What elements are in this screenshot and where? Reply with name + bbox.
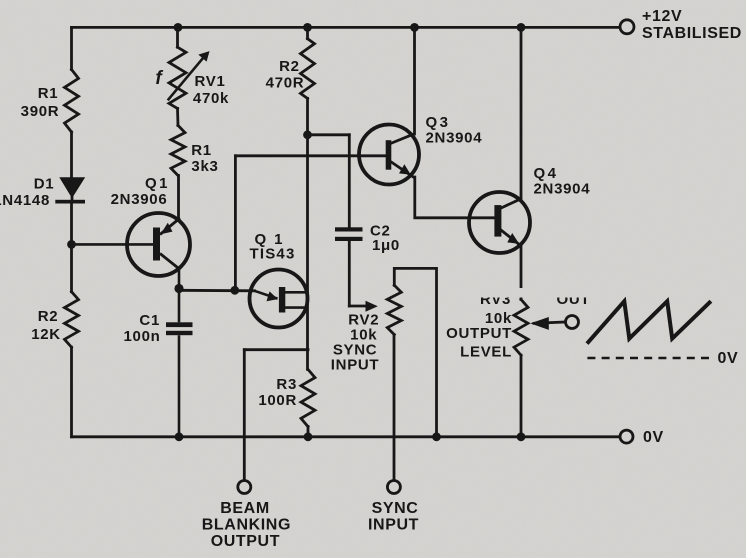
transistor TIS43 base1 lead bbox=[285, 306, 308, 309]
wire +12V top rail bbox=[72, 26, 621, 29]
transistor Q1 TIS43 circle bbox=[250, 270, 308, 328]
transistor TIS43 emitter lead diagonal bbox=[255, 291, 278, 299]
transistor Q3 emitter arrow (NPN) bbox=[399, 164, 411, 175]
transistor Q3 emitter lead bbox=[391, 162, 415, 178]
junction dot top rail Q4 collector bbox=[517, 23, 526, 32]
junction dot bottom rail C1 bbox=[175, 432, 184, 441]
transistor Q1 emitter arrow (PNP) bbox=[161, 223, 173, 234]
potentiometer RV3 wiper arrowhead bbox=[530, 317, 549, 330]
wire node to C2 horizontal bbox=[308, 133, 350, 136]
capacitor C2 top plate bbox=[335, 227, 363, 231]
wire R2 470R top lead bbox=[306, 27, 309, 38]
wire RV2 bottom to SYNC INPUT terminal bbox=[393, 335, 396, 481]
potentiometer RV3 10k zigzag bbox=[514, 299, 528, 355]
wire TIS43 emitter horizontal bbox=[179, 289, 255, 292]
transistor Q3 2N3904 circle bbox=[359, 125, 419, 185]
wire RV3 wiper arrow line from OUT bbox=[534, 322, 566, 323]
transistor Q1 2N3906 circle bbox=[127, 213, 190, 276]
transistor Q1 emitter lead bbox=[160, 218, 180, 235]
transistor Q4 emitter arrow (NPN) bbox=[507, 233, 519, 244]
capacitor C1 100n top plate bbox=[166, 322, 193, 327]
wire RV3 bottom lead bbox=[520, 355, 523, 437]
wire 0V bottom rail bbox=[72, 435, 621, 438]
transistor Q3 base bar bbox=[386, 140, 392, 170]
wire Q1 base lead bbox=[72, 243, 154, 246]
transistor Q4 collector lead bbox=[499, 199, 521, 209]
resistor R2 470R bbox=[301, 39, 315, 99]
wire Q4 emitter vertical to RV3 bbox=[520, 246, 523, 299]
waveform 0V dashed baseline bbox=[587, 357, 714, 359]
transistor TIS43 base2 lead bbox=[285, 291, 308, 294]
transistor TIS43 emitter arrow bbox=[267, 291, 278, 301]
potentiometer RV1 diagonal arrow bbox=[168, 56, 205, 101]
wire left rail top segment bbox=[70, 27, 73, 69]
terminal OUT bbox=[566, 316, 579, 329]
capacitor C1 100n bottom plate bbox=[166, 331, 193, 335]
wire RV1 top lead bbox=[176, 27, 179, 47]
wire Q3 emitter vertical and Q4 base wire bbox=[415, 177, 495, 218]
resistor R1 390R bbox=[65, 70, 79, 133]
sawtooth waveform bbox=[587, 301, 711, 343]
wire left rail between D1 and R2 bbox=[70, 203, 73, 292]
wire Q3 base from TIS43 emitter node bbox=[235, 154, 386, 157]
wire C2 bottom lead bbox=[348, 241, 351, 306]
terminal +12V bbox=[620, 20, 634, 34]
resistor R3 100R bbox=[301, 369, 315, 426]
wire BEAM blanking tap horizontal bbox=[244, 348, 308, 351]
wire C1 bottom lead bbox=[178, 335, 181, 437]
potentiometer RV2 wiper arrowhead bbox=[366, 301, 378, 312]
junction dot left rail Q1 base bbox=[67, 240, 76, 249]
diode D1 cathode bar bbox=[55, 200, 85, 204]
wire RV2 wiper arrow line bbox=[349, 305, 369, 308]
junction dot top rail R2 470R bbox=[303, 23, 312, 32]
potentiometer RV2 10k zigzag bbox=[387, 285, 401, 334]
resistor R1 3k3 bbox=[171, 125, 185, 175]
wire left rail between R1 and D1 bbox=[70, 132, 73, 179]
wire between RV1 and R1 3k3 bbox=[176, 109, 179, 126]
wire C2 top lead bbox=[348, 135, 351, 228]
junction dot R2 bottom node bbox=[303, 130, 312, 139]
wire RV2 top lead loop bbox=[394, 268, 436, 436]
wire R1 3k3 to Q1 emitter bbox=[177, 176, 180, 219]
junction dot top rail Q3 collector bbox=[410, 23, 419, 32]
wire vertical node to Q3 base wire bbox=[234, 156, 237, 290]
transistor Q1 collector lead bbox=[160, 254, 180, 270]
junction dot bottom rail R3 bbox=[304, 432, 313, 441]
transistor Q3 collector lead bbox=[391, 134, 415, 144]
junction dot top rail RV1 bbox=[174, 23, 183, 32]
wire R3 bottom lead bbox=[307, 427, 310, 437]
transistor Q1 base bar bbox=[153, 228, 160, 261]
terminal 0V bottom right bbox=[620, 430, 633, 443]
wire Q1 collector vertical to C1 bbox=[178, 269, 181, 322]
wire left rail bottom segment bbox=[70, 347, 73, 437]
terminal SYNC INPUT bbox=[387, 481, 400, 494]
scan clip band over RV3 and OUT labels bbox=[455, 288, 590, 298]
junction dot bottom rail RV2 loop bbox=[432, 432, 441, 441]
junction dot TIS43 emitter / Q3 base vertical bbox=[230, 286, 239, 295]
transistor Q4 base bar bbox=[494, 205, 501, 237]
potentiometer RV1 470k zigzag bbox=[169, 47, 186, 108]
diode D1 1N4148 triangle bbox=[59, 177, 85, 198]
wire R2 bottom long vertical to TIS43 and R3 bbox=[306, 98, 309, 369]
transistor TIS43 base bar bbox=[279, 287, 285, 313]
transistor Q4 2N3904 circle bbox=[469, 192, 530, 253]
wire Q3 collector vertical bbox=[413, 27, 416, 134]
junction dot bottom rail RV3 bbox=[517, 432, 526, 441]
capacitor C2 bottom plate bbox=[335, 237, 363, 241]
resistor R2 12K bbox=[65, 292, 79, 348]
junction dot Q1 collector / TIS43 emitter bbox=[174, 284, 183, 293]
terminal BEAM BLANKING OUTPUT bbox=[238, 481, 251, 494]
transistor Q4 emitter lead bbox=[499, 229, 521, 246]
wire BEAM vertical to terminal bbox=[243, 350, 246, 481]
wire Q4 collector vertical bbox=[520, 27, 523, 198]
